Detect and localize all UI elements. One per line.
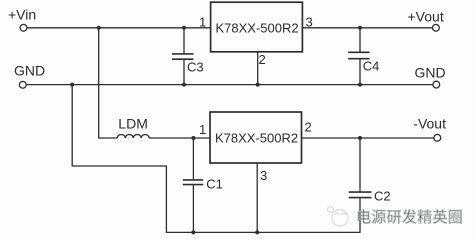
terminal GND right [433, 81, 440, 88]
regulator U1 K78XX-500R2 [211, 2, 303, 52]
terminal -Vout [434, 134, 441, 141]
svg-text:3: 3 [260, 168, 267, 183]
node input rail to C3 [182, 26, 186, 30]
svg-text:+Vin: +Vin [8, 7, 36, 23]
terminal +Vout [433, 24, 440, 31]
svg-text:LDM: LDM [118, 116, 148, 132]
svg-text:1: 1 [199, 15, 206, 30]
node +Vout rail to C4 [358, 26, 362, 30]
wire ground rail [26, 84, 433, 86]
svg-text:电源研发精英圈: 电源研发精英圈 [356, 208, 463, 226]
svg-text:2: 2 [305, 120, 312, 135]
node ground U1 pin2 [256, 83, 260, 87]
wire U1 pin 3 to +Vout [302, 27, 432, 29]
node LDM rail to C1 [191, 136, 195, 140]
wire U2 pin 2 to -Vout [302, 137, 435, 139]
svg-text:K78XX-500R2: K78XX-500R2 [215, 131, 298, 146]
wire LDM to U2 pin 1 [149, 137, 210, 139]
svg-text:K78XX-500R2: K78XX-500R2 [216, 21, 299, 36]
node ground C3 [182, 83, 186, 87]
terminal +Vin [20, 24, 27, 31]
capacitor C2 [349, 138, 391, 233]
svg-text:C4: C4 [363, 59, 380, 74]
node bottom rail U2 pin3 [255, 230, 259, 234]
node ground to negative branch [70, 83, 74, 87]
node bottom rail C1 [191, 230, 195, 234]
wire +Vin branch down to LDM [99, 28, 118, 138]
watermark logo icon [328, 207, 349, 226]
capacitor C3 [172, 28, 204, 85]
svg-text:C1: C1 [206, 177, 223, 192]
wire U1 pin 2 to ground rail [257, 52, 259, 85]
svg-text:+Vout: +Vout [408, 9, 444, 25]
wire +Vin rail [27, 27, 211, 29]
node -Vout rail to C2 [358, 136, 362, 140]
capacitor C1 [183, 138, 223, 232]
svg-text:C2: C2 [374, 189, 391, 204]
terminal GND left [19, 81, 26, 88]
svg-text:C3: C3 [187, 60, 204, 75]
svg-text:1: 1 [199, 122, 206, 137]
inductor LDM [117, 134, 149, 138]
capacitor C4 [348, 28, 379, 85]
node input rail to LDM branch [97, 26, 101, 30]
node ground C4 [358, 83, 362, 87]
svg-text:GND: GND [415, 65, 446, 81]
svg-text:-Vout: -Vout [413, 116, 446, 132]
wire ground branch to bottom rail [72, 85, 360, 233]
svg-text:2: 2 [259, 52, 266, 67]
wire U2 pin 3 down [256, 163, 258, 232]
svg-text:GND: GND [14, 63, 45, 79]
regulator U2 K78XX-500R2 [210, 112, 302, 163]
